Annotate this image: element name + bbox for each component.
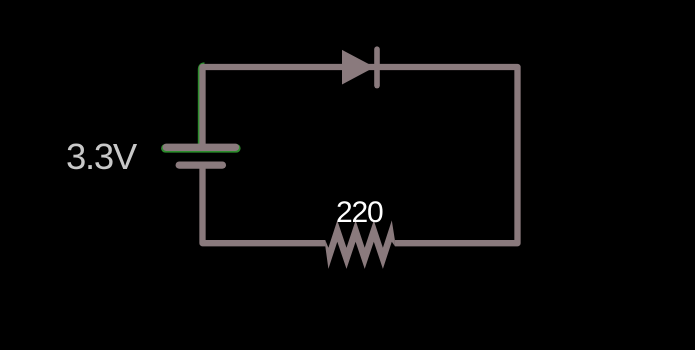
- diode D1 cathode bar: [374, 49, 380, 85]
- wire: battery+ up, top side with diode, right side, down to resistor right lead: [203, 67, 518, 243]
- node A green highlight: battery positive plate outline: [165, 144, 236, 153]
- label 3.3V (battery value): [66, 139, 136, 176]
- diode D1 anode triangle: [342, 50, 375, 85]
- node A green highlight: wire from top-left corner to battery + terminal: [201, 66, 204, 150]
- battery V1 negative plate (short): [179, 161, 222, 168]
- wire: resistor left lead to bottom-left corner, up to battery - terminal: [203, 168, 326, 243]
- battery V1 positive plate (long): [166, 144, 235, 151]
- resistor R1 zigzag body: [325, 220, 395, 269]
- label 220 (resistor value): [336, 198, 382, 228]
